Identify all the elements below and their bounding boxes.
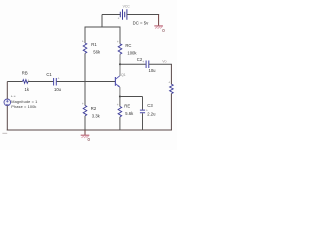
resistor RB (23, 80, 29, 84)
svg-text:+: + (117, 40, 119, 44)
wire C3 bottom segment (142, 113, 144, 130)
wire right rail upper (170, 64, 172, 84)
resistor RC (118, 44, 122, 54)
svg-text:+: + (142, 60, 144, 64)
wire RE top segment (119, 97, 121, 107)
svg-text:VCC: VCC (123, 5, 131, 9)
wire RC column top (119, 27, 121, 44)
node emitter junction (119, 96, 121, 98)
wire left rail lower (6, 106, 8, 131)
svg-text:+: + (11, 95, 13, 99)
capacitor C2 (146, 61, 149, 69)
svg-text:RE: RE (124, 103, 130, 108)
wire R2 bottom to bottom rail (84, 116, 86, 130)
svg-text:3.3k: 3.3k (92, 113, 101, 118)
ground GND2 (154, 25, 163, 27)
wire emitter to C3 (120, 96, 143, 98)
svg-text:C3: C3 (147, 103, 153, 108)
ground stem top right (158, 15, 160, 26)
svg-text:RB: RB (22, 71, 28, 76)
svg-text:+: + (168, 81, 170, 85)
svg-text:10u: 10u (54, 87, 62, 92)
wire left rail upper (6, 82, 8, 100)
svg-text:10u: 10u (149, 68, 157, 73)
transistor Q1 (114, 77, 116, 86)
wire bottom rail (7, 129, 172, 131)
svg-text:+: + (117, 103, 119, 107)
source V1 (4, 99, 11, 106)
svg-text:R2: R2 (91, 106, 97, 111)
wire RC bottom to collector (119, 54, 121, 76)
mark bottom-left faint dash (2, 133, 7, 134)
capacitor C1 (54, 78, 57, 86)
svg-text:5.6k: 5.6k (125, 111, 134, 116)
wire battery right to top-right corner (127, 14, 159, 16)
wire RB to C1 (28, 81, 53, 83)
wire emitter down (119, 87, 121, 97)
resistor RL (170, 84, 174, 93)
wire riser to battery left (102, 14, 120, 16)
svg-text:Q1: Q1 (121, 73, 126, 77)
wire top bus (85, 26, 121, 28)
wire right rail lower (170, 94, 172, 131)
wire base wire left segment (source to RB) (7, 81, 22, 83)
ground stem bottom (84, 130, 86, 135)
wire C3 top segment (142, 97, 144, 110)
wire riser to battery level (101, 15, 103, 28)
svg-text:+: + (82, 39, 84, 43)
svg-text:Phase = 100k: Phase = 100k (11, 104, 36, 109)
wire C2 right to right rail corner (149, 63, 172, 65)
capacitor C3 (140, 110, 145, 113)
svg-text:56k: 56k (93, 49, 101, 54)
wire C2 left (120, 63, 146, 65)
svg-text:2.2u: 2.2u (147, 112, 156, 117)
wire R1 bottom to base wire to R2 (84, 53, 86, 105)
wire RE bottom segment (119, 117, 121, 131)
svg-text:C1: C1 (46, 72, 52, 77)
svg-text:100k: 100k (127, 50, 137, 55)
resistor R2 (83, 106, 87, 116)
resistor R1 (83, 43, 87, 53)
resistor RE (118, 107, 122, 117)
svg-text:R1: R1 (91, 42, 97, 47)
battery V2 (120, 12, 124, 17)
svg-text:+: + (146, 109, 148, 113)
svg-text:+: + (118, 17, 120, 21)
wire R1R2 column top (bus to R1) (84, 27, 86, 44)
svg-text:+: + (82, 102, 84, 106)
wire collector stub (119, 64, 121, 76)
svg-text:Vo: Vo (162, 60, 166, 64)
node collector junction (119, 63, 121, 65)
wire C1 to base (57, 81, 116, 83)
svg-text:+: + (58, 77, 60, 81)
ground GND1 (81, 134, 90, 136)
svg-text:RC: RC (125, 43, 131, 48)
svg-text:DC = 5v: DC = 5v (133, 21, 149, 26)
